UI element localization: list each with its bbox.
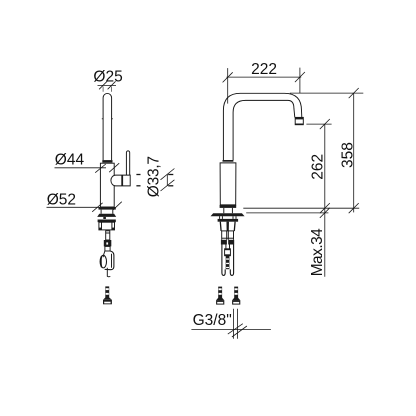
svg-text:222: 222 [251,61,277,78]
svg-text:Ø52: Ø52 [47,191,76,208]
handle pivot cartridge [111,175,130,186]
supply hoses upper [221,231,223,240]
pivot divider [121,175,123,186]
aerator outlet [295,117,303,124]
dimension G3/8 leader [191,309,271,339]
body bottom ring (left view) [99,207,116,210]
hose tail [107,268,110,277]
dimension 222 line [223,68,305,104]
flange under-nub [103,217,106,219]
mounting screw B (front view) [232,287,240,305]
pipe-body joint (front view) [223,160,234,162]
body bottom ring (front view) [220,205,237,208]
deck line lower [246,212,328,214]
svg-text:Ø44: Ø44 [55,151,85,168]
faucet body (front view) [220,163,236,205]
svg-text:Max.34: Max.34 [309,228,326,276]
threaded shank (left view) [106,231,110,240]
base flange (front view) [211,213,245,216]
hose loop (left view) [105,251,114,270]
spout outer profile (front view) [223,93,301,160]
mounting nut (left view) [98,220,116,223]
hose connection cups [220,222,235,231]
base stem lines (front view) [223,208,225,213]
dimension Ø33,7 [136,169,174,192]
dimension 358 line [349,88,359,213]
base cylinder (left view) [99,222,115,230]
hose crimp blocks [221,240,227,245]
spout pipe (left view) [103,93,112,160]
stud connector box [225,249,231,256]
connector tube [105,246,110,251]
hose connector block [104,240,112,246]
svg-text:G3/8": G3/8" [193,312,232,329]
flange stem lines [219,216,221,219]
mounting nut (front view) [218,219,239,222]
extension line outlet [306,123,331,125]
dimension Ø25 leader [98,81,117,92]
base stem lines [100,210,102,214]
svg-text:Ø33,7: Ø33,7 [145,156,162,197]
pipe-body joint band [102,160,112,163]
dimension Ø52 leader [47,202,122,212]
mounting screw (left view) [103,286,112,304]
faucet body (left view) [100,163,114,207]
mounting stud outer tubes [222,245,225,276]
deck line upper [243,207,359,209]
svg-text:Ø25: Ø25 [93,69,122,86]
dimension 262 line [320,119,330,277]
extension line spout top [290,92,364,94]
svg-text:358: 358 [339,142,356,168]
threaded rod [226,256,230,270]
dimension Ø44 leader [55,163,120,173]
mounting screw A (front view) [216,287,224,305]
pipe joint nubs [102,118,103,120]
svg-text:262: 262 [310,154,327,180]
handle lever [126,151,129,175]
base flange (left view) [97,214,116,217]
spout inner profile [233,100,295,160]
